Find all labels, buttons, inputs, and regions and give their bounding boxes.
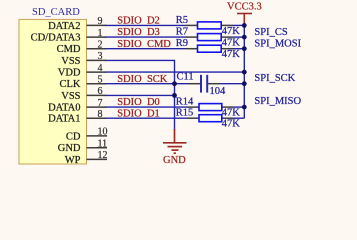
svg-text:VDD: VDD [58, 68, 81, 79]
svg-text:6: 6 [98, 86, 103, 97]
svg-text:SDIO D3: SDIO D3 [117, 27, 160, 38]
svg-text:1: 1 [98, 28, 103, 39]
svg-text:C11: C11 [177, 72, 194, 83]
svg-text:SDIO SCK: SDIO SCK [117, 74, 168, 85]
svg-text:VCC3.3: VCC3.3 [227, 2, 262, 13]
svg-text:SPI_MISO: SPI_MISO [254, 96, 301, 107]
svg-text:3: 3 [98, 51, 103, 62]
svg-text:R14: R14 [176, 97, 194, 108]
svg-text:WP: WP [65, 155, 81, 166]
svg-text:SD_CARD: SD_CARD [32, 7, 80, 18]
svg-text:DATA0: DATA0 [48, 103, 80, 114]
svg-text:SDIO CMD: SDIO CMD [117, 39, 171, 50]
svg-text:VSS: VSS [61, 56, 80, 67]
svg-text:104: 104 [210, 86, 227, 97]
svg-text:SDIO D0: SDIO D0 [117, 97, 160, 108]
svg-text:R7: R7 [176, 27, 188, 38]
svg-text:47K: 47K [222, 49, 241, 60]
svg-text:47K: 47K [222, 38, 241, 49]
svg-text:CLK: CLK [60, 79, 81, 90]
svg-text:R9: R9 [176, 38, 188, 49]
svg-text:SDIO D1: SDIO D1 [117, 108, 160, 119]
svg-text:10: 10 [98, 127, 108, 138]
svg-text:47K: 47K [222, 119, 241, 130]
svg-text:47K: 47K [222, 108, 241, 119]
svg-text:5: 5 [98, 75, 103, 86]
svg-text:GND: GND [58, 143, 81, 154]
svg-text:DATA1: DATA1 [48, 114, 80, 125]
svg-text:SPI_SCK: SPI_SCK [254, 73, 295, 84]
svg-text:9: 9 [98, 16, 103, 27]
svg-text:DATA2: DATA2 [48, 21, 80, 32]
svg-text:8: 8 [98, 109, 103, 120]
svg-text:SPI_CS: SPI_CS [254, 27, 287, 38]
svg-text:CMD: CMD [57, 44, 81, 55]
svg-text:SPI_MOSI: SPI_MOSI [254, 38, 301, 49]
svg-text:GND: GND [163, 155, 186, 166]
svg-text:7: 7 [98, 98, 103, 109]
svg-text:12: 12 [98, 150, 108, 161]
svg-text:CD/DATA3: CD/DATA3 [31, 33, 81, 44]
svg-text:R5: R5 [176, 15, 188, 26]
svg-text:11: 11 [98, 139, 108, 150]
svg-text:CD: CD [66, 131, 81, 142]
svg-text:4: 4 [98, 63, 103, 74]
svg-text:2: 2 [98, 40, 103, 51]
svg-text:SDIO D2: SDIO D2 [117, 16, 160, 27]
svg-text:47K: 47K [222, 26, 241, 37]
svg-text:VSS: VSS [61, 91, 80, 102]
svg-text:R15: R15 [176, 108, 194, 119]
